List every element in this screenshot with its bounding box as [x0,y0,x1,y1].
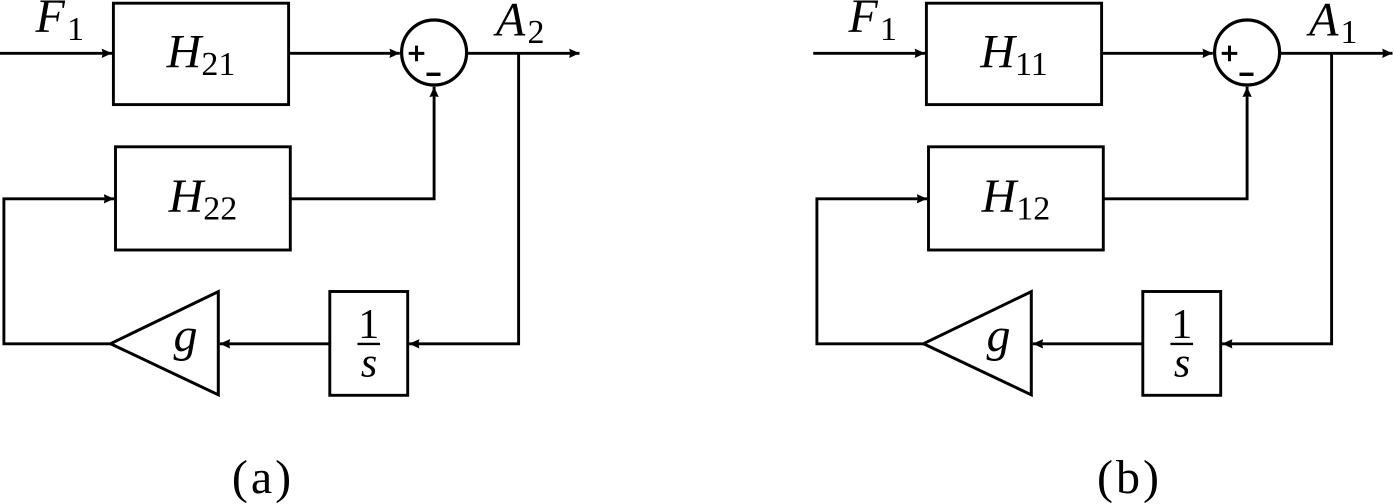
svg-text:H12: H12 [981,170,1051,228]
svg-text:H22: H22 [168,170,238,228]
svg-text:g: g [174,309,198,362]
svg-text:(b): (b) [1097,451,1162,504]
svg-text:1: 1 [67,11,84,48]
svg-text:g: g [987,309,1011,362]
svg-text:1: 1 [880,11,897,48]
svg-text:A: A [493,0,526,47]
svg-text:s: s [361,340,377,386]
svg-text:1: 1 [1341,14,1358,51]
svg-text:F: F [35,0,66,43]
svg-text:(a): (a) [232,451,294,504]
svg-text:H21: H21 [166,26,236,84]
svg-text:s: s [1174,340,1190,386]
svg-text:F: F [848,0,879,43]
svg-text:A: A [1306,0,1339,47]
svg-text:H11: H11 [979,26,1047,84]
svg-text:2: 2 [528,14,545,51]
